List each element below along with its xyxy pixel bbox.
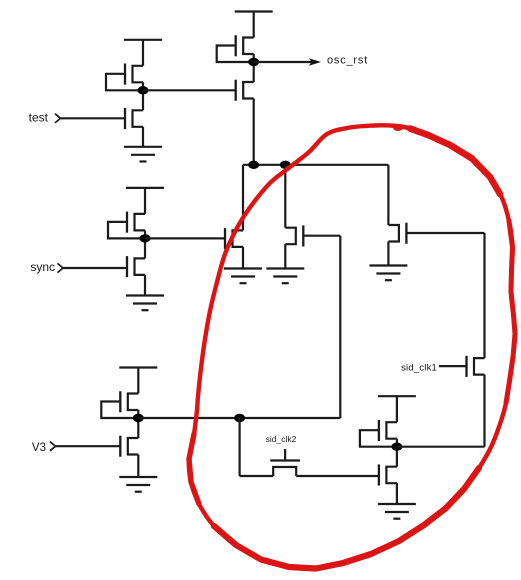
- svg-text:test: test: [29, 110, 49, 124]
- svg-text:sync: sync: [30, 260, 55, 274]
- svg-text:sid_clk2: sid_clk2: [266, 434, 297, 444]
- svg-text:osc_rst: osc_rst: [327, 55, 368, 67]
- svg-text:sid_clk1: sid_clk1: [401, 362, 437, 373]
- svg-text:V3: V3: [32, 442, 46, 454]
